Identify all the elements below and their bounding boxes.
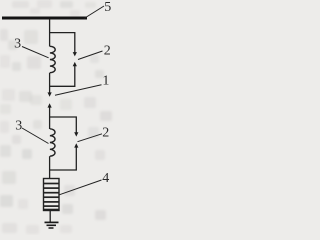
svg-text:2: 2 <box>104 44 111 59</box>
svg-text:2: 2 <box>102 126 109 141</box>
svg-text:1: 1 <box>102 74 109 89</box>
svg-text:5: 5 <box>104 0 111 15</box>
svg-text:3: 3 <box>14 37 21 52</box>
svg-text:3: 3 <box>15 119 22 134</box>
svg-text:4: 4 <box>102 171 109 186</box>
